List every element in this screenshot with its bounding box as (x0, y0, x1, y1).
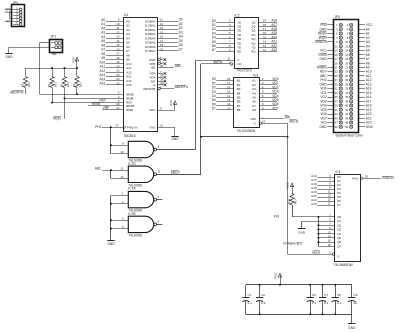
svg-text:IC7A: IC7A (128, 187, 136, 191)
svg-text:23: 23 (335, 70, 338, 74)
svg-text:GND: GND (171, 137, 179, 141)
svg-text:VCC: VCC (285, 181, 289, 188)
svg-text:11: 11 (335, 44, 338, 48)
svg-text:33: 33 (335, 91, 338, 95)
svg-text:R4: R4 (72, 83, 76, 87)
svg-text:74LS00D: 74LS00D (128, 234, 142, 238)
svg-text:IC3: IC3 (253, 73, 258, 77)
svg-text:C2: C2 (261, 293, 265, 297)
svg-text:0.1: 0.1 (324, 301, 329, 305)
svg-text:44: 44 (345, 112, 348, 116)
svg-text:36: 36 (345, 95, 348, 99)
svg-text:43: 43 (335, 112, 338, 116)
svg-text:IO=Bank $FD: IO=Bank $FD (283, 241, 303, 245)
svg-text:42: 42 (345, 108, 348, 112)
svg-text:29: 29 (335, 82, 338, 86)
svg-text:+12: +12 (5, 19, 11, 23)
svg-text:14: 14 (345, 49, 348, 53)
svg-text:49: 49 (335, 125, 338, 129)
svg-text:ABCN: ABCN (289, 120, 299, 124)
svg-text:14: 14 (328, 235, 331, 239)
svg-text:C8: C8 (337, 293, 341, 297)
svg-text:16: 16 (345, 53, 348, 57)
svg-text:21: 21 (335, 66, 338, 70)
svg-text:System Bus Conn: System Bus Conn (335, 133, 362, 137)
svg-text:17: 17 (335, 57, 338, 61)
svg-text:37: 37 (115, 123, 119, 127)
svg-text:R5: R5 (21, 83, 25, 87)
svg-text:39: 39 (335, 104, 338, 108)
svg-text:D7: D7 (212, 48, 216, 52)
svg-text:A15: A15 (126, 83, 132, 87)
svg-text:22: 22 (345, 66, 348, 70)
svg-text:IOSELN: IOSELN (382, 176, 394, 180)
svg-text:VCC: VCC (71, 56, 75, 63)
svg-text:8Q: 8Q (251, 50, 256, 54)
svg-text:13: 13 (328, 194, 331, 198)
svg-text:13: 13 (335, 49, 338, 53)
svg-text:36: 36 (160, 64, 164, 68)
svg-text:31: 31 (335, 87, 338, 91)
svg-text:74LS688DW: 74LS688DW (334, 263, 354, 267)
svg-text:B8: B8 (237, 108, 241, 112)
svg-text:25: 25 (335, 74, 338, 78)
svg-text:45: 45 (335, 116, 338, 120)
svg-text:RW: RW (103, 106, 108, 110)
svg-text:VD7: VD7 (272, 106, 278, 110)
svg-text:12: 12 (345, 44, 348, 48)
svg-text:VCC: VCC (273, 272, 277, 279)
svg-text:41: 41 (335, 108, 338, 112)
svg-text:GND: GND (348, 326, 356, 330)
svg-text:3K3: 3K3 (66, 82, 70, 87)
svg-text:46: 46 (345, 116, 348, 120)
svg-text:24: 24 (345, 70, 348, 74)
svg-text:IC2: IC2 (235, 14, 240, 18)
svg-text:U1: U1 (124, 13, 128, 17)
svg-text:0.1: 0.1 (337, 301, 342, 305)
svg-text:A15: A15 (100, 82, 106, 86)
svg-text:0.1: 0.1 (261, 301, 266, 305)
svg-text:3K3: 3K3 (79, 82, 83, 87)
svg-text:10: 10 (345, 40, 348, 44)
svg-text:18: 18 (345, 57, 348, 61)
svg-text:34: 34 (116, 106, 120, 110)
svg-text:C7: C7 (324, 293, 328, 297)
svg-text:P41: P41 (274, 215, 280, 219)
svg-text:D7/BA7: D7/BA7 (145, 49, 156, 53)
svg-text:IC4: IC4 (335, 170, 340, 174)
svg-text:34: 34 (345, 91, 348, 95)
svg-text:GND: GND (298, 231, 306, 235)
svg-text:11: 11 (158, 170, 161, 174)
svg-text:3K3: 3K3 (27, 82, 31, 87)
svg-text:19: 19 (335, 61, 338, 65)
svg-text:32: 32 (345, 87, 348, 91)
svg-text:ABC: ABC (95, 167, 102, 171)
svg-text:C6: C6 (312, 293, 316, 297)
svg-text:ABCN: ABCN (312, 250, 321, 254)
svg-text:IC7B: IC7B (128, 212, 136, 216)
svg-text:A8: A8 (252, 108, 256, 112)
svg-text:GND: GND (320, 57, 328, 61)
svg-text:30: 30 (345, 82, 348, 86)
svg-text:3K3: 3K3 (54, 82, 58, 87)
svg-text:ABORTN: ABORTN (175, 85, 189, 89)
svg-text:RDY: RDY (99, 99, 107, 103)
svg-text:Q7: Q7 (337, 244, 341, 248)
svg-text:21: 21 (160, 124, 164, 128)
svg-text:JP0: JP0 (13, 1, 19, 5)
svg-text:C9: C9 (353, 293, 357, 297)
svg-text:D7: D7 (179, 47, 183, 51)
svg-text:74LS245DW: 74LS245DW (237, 129, 257, 133)
svg-text:47: 47 (335, 121, 338, 125)
svg-text:ABORTN: ABORTN (10, 90, 24, 94)
svg-text:GND: GND (5, 10, 13, 14)
svg-text:50: 50 (345, 125, 348, 129)
svg-text:38: 38 (345, 99, 348, 103)
svg-text:74LVC573: 74LVC573 (236, 69, 252, 73)
svg-text:19: 19 (365, 175, 368, 179)
svg-text:25: 25 (116, 81, 120, 85)
svg-text:P7: P7 (337, 203, 341, 207)
svg-text:JP1: JP1 (51, 34, 57, 38)
svg-text:VCC: VCC (169, 99, 173, 106)
svg-text:A23: A23 (271, 48, 277, 52)
svg-text:0.1: 0.1 (248, 301, 253, 305)
svg-text:D7: D7 (212, 107, 216, 111)
svg-text:ABCN: ABCN (171, 171, 181, 175)
svg-text:40: 40 (345, 104, 348, 108)
svg-text:BE: BE (151, 66, 155, 70)
svg-text:4K7: 4K7 (294, 199, 298, 204)
svg-text:27: 27 (335, 78, 338, 82)
svg-text:GND: GND (107, 242, 115, 246)
svg-text:11: 11 (227, 106, 230, 110)
svg-text:65C816: 65C816 (124, 134, 136, 138)
svg-text:R2: R2 (47, 83, 51, 87)
svg-text:26: 26 (345, 74, 348, 78)
svg-text:12: 12 (120, 166, 124, 170)
svg-text:C1: C1 (248, 293, 252, 297)
svg-text:PH2: PH2 (95, 125, 101, 129)
svg-text:35: 35 (335, 95, 338, 99)
svg-text:R3: R3 (60, 83, 64, 87)
svg-text:15: 15 (335, 53, 338, 57)
svg-text:P=Q: P=Q (352, 176, 359, 180)
svg-text:PHI2-IN: PHI2-IN (127, 125, 138, 129)
svg-text:20: 20 (345, 61, 348, 65)
svg-text:12: 12 (263, 48, 267, 52)
svg-text:IRQN: IRQN (53, 116, 62, 120)
svg-text:RESB: RESB (92, 102, 101, 106)
svg-text:R41: R41 (287, 198, 291, 204)
svg-text:10: 10 (353, 301, 357, 305)
svg-text:48: 48 (345, 121, 348, 125)
svg-text:GND: GND (366, 125, 374, 129)
svg-text:IC7D: IC7D (128, 162, 136, 166)
svg-text:26: 26 (160, 47, 164, 51)
svg-text:ABCN: ABCN (213, 60, 223, 64)
svg-text:RWB: RWB (126, 108, 133, 112)
svg-text:0.1: 0.1 (312, 301, 317, 305)
svg-text:17: 17 (328, 202, 331, 206)
svg-text:ABORTB: ABORTB (143, 87, 155, 91)
svg-text:DIR: DIR (251, 117, 257, 121)
svg-text:13: 13 (120, 175, 124, 179)
svg-text:VDD: VDD (149, 108, 156, 112)
svg-text:VSS: VSS (149, 126, 155, 130)
svg-text:GND: GND (5, 55, 13, 59)
svg-text:28: 28 (345, 78, 348, 82)
svg-text:15: 15 (328, 198, 331, 202)
svg-text:19: 19 (262, 120, 266, 124)
svg-text:37: 37 (335, 99, 338, 103)
svg-text:16: 16 (328, 239, 331, 243)
svg-text:GND: GND (320, 125, 328, 129)
svg-text:A23: A23 (311, 202, 317, 206)
svg-text:JP5: JP5 (334, 15, 340, 19)
